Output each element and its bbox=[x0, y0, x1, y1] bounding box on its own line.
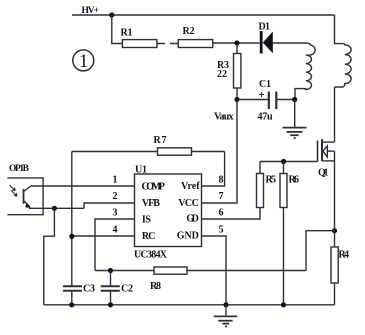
resistor R1 bbox=[122, 40, 156, 48]
wire pin 5 to ground bbox=[202, 236, 227, 305]
node C2 top junction bbox=[108, 268, 113, 273]
wire Vaux node to C1 bbox=[237, 99, 269, 101]
svg-text:Vref: Vref bbox=[181, 181, 200, 192]
svg-text:U1: U1 bbox=[135, 165, 147, 176]
resistor R3 bbox=[234, 54, 241, 89]
ground (aux winding) bbox=[283, 100, 307, 139]
wire R3 top stub bbox=[236, 43, 238, 54]
wire R3 bottom stub bbox=[236, 88, 238, 100]
transistor Q1 (MOSFET) bbox=[318, 139, 335, 161]
svg-text:R8: R8 bbox=[150, 281, 161, 292]
wire left vertical R7/pin4/C3 bbox=[71, 152, 73, 287]
wire current sense line R8 bbox=[95, 270, 154, 272]
svg-text:C3: C3 bbox=[83, 284, 95, 295]
svg-text:6: 6 bbox=[219, 208, 224, 219]
node rail R6 bbox=[281, 302, 286, 307]
svg-text:R1: R1 bbox=[121, 28, 133, 39]
svg-text:47u: 47u bbox=[258, 112, 273, 123]
schematic number circle 1 bbox=[73, 50, 94, 71]
inductor primary winding bbox=[295, 43, 315, 100]
svg-text:GD: GD bbox=[186, 214, 199, 225]
resistor R4 bbox=[331, 247, 338, 283]
wire R6 bottom to ground rail bbox=[283, 208, 285, 305]
svg-text:OP1B: OP1B bbox=[9, 164, 30, 174]
resistor R5 bbox=[257, 174, 264, 208]
wire source node left and down to R8 bbox=[306, 231, 335, 271]
svg-text:2: 2 bbox=[113, 191, 118, 202]
wire R4 bottom stub bbox=[334, 283, 336, 305]
wire gate line from R5/R6 to Q1 bbox=[260, 161, 318, 163]
node pin4 junction bbox=[69, 234, 74, 239]
svg-text:UC384X: UC384X bbox=[134, 250, 168, 261]
wire pin 2 from emitter jog bbox=[84, 203, 134, 208]
wire R8 right lead bbox=[187, 270, 306, 272]
capacitor C3 bbox=[63, 286, 82, 305]
svg-text:5: 5 bbox=[219, 224, 224, 235]
wire emitter node down to ground rail bbox=[44, 208, 55, 304]
svg-text:R5: R5 bbox=[266, 175, 277, 186]
wire pin 4 to left vertical bbox=[72, 235, 135, 237]
svg-text:7: 7 bbox=[219, 191, 224, 202]
svg-text:3: 3 bbox=[113, 208, 118, 219]
wire R6 top stub bbox=[283, 162, 285, 174]
node R6 top bbox=[281, 159, 286, 164]
wire C1 to coil-bottom node bbox=[278, 99, 295, 101]
svg-text:1: 1 bbox=[79, 52, 88, 72]
node coil/C1/ground junction bbox=[292, 97, 297, 102]
svg-text:Vaux: Vaux bbox=[214, 112, 234, 123]
wire Q1 source down bbox=[334, 151, 336, 231]
svg-text:IS: IS bbox=[142, 214, 151, 225]
wire R7 right lead bbox=[192, 151, 225, 153]
svg-text:VFB: VFB bbox=[142, 198, 160, 209]
capacitor C2 bbox=[101, 271, 120, 305]
resistor R2 bbox=[178, 40, 213, 48]
svg-text:C1: C1 bbox=[259, 79, 271, 90]
wire dashed between R1 and R2 bbox=[157, 43, 178, 45]
wire pin 3 to current sense bbox=[95, 219, 135, 271]
svg-text:R4: R4 bbox=[339, 250, 350, 261]
wire R7 lead left bbox=[72, 151, 158, 153]
resistor R8 bbox=[154, 267, 187, 274]
svg-text:R7: R7 bbox=[154, 135, 167, 146]
resistor R7 bbox=[158, 148, 192, 155]
wire R4 top stub bbox=[334, 231, 336, 247]
wire from HV+ node down to R1 bbox=[112, 15, 123, 44]
wire secondary bottom to Q1 drain bbox=[334, 87, 336, 142]
inductor secondary winding bbox=[335, 15, 352, 87]
svg-text:R2: R2 bbox=[183, 26, 195, 37]
svg-text:HV+: HV+ bbox=[82, 6, 100, 16]
svg-text:R6: R6 bbox=[289, 175, 300, 186]
diode D1 bbox=[260, 31, 273, 54]
wire emitter to pin2 jog bbox=[29, 207, 84, 209]
svg-text:D1: D1 bbox=[259, 22, 271, 33]
svg-text:4: 4 bbox=[113, 224, 118, 235]
node R3/C1/Vaux junction bbox=[234, 97, 239, 102]
svg-text:COMP: COMP bbox=[142, 182, 165, 193]
node HV+ junction bbox=[109, 12, 114, 17]
node rail C2 bbox=[108, 302, 113, 307]
resistor R6 bbox=[280, 174, 287, 208]
svg-text:Q1: Q1 bbox=[318, 168, 329, 179]
wire R5 top stub bbox=[259, 162, 261, 174]
node Q1 source / R4 junction bbox=[332, 228, 337, 233]
wire pin 8 to R7 bbox=[202, 152, 225, 187]
wire Vaux vertical to pin 7 bbox=[202, 100, 238, 204]
svg-text:22: 22 bbox=[217, 69, 227, 80]
wire R5 bottom to pin 6 bbox=[202, 208, 261, 220]
node R2/R3 junction bbox=[234, 40, 239, 45]
svg-text:VCC: VCC bbox=[178, 198, 199, 209]
svg-text:C2: C2 bbox=[121, 284, 133, 295]
node rail pin5 bbox=[223, 302, 228, 307]
wire pin 1 from OP1B collector bbox=[31, 185, 135, 187]
optocoupler OP1B bbox=[7, 178, 43, 215]
wire bottom ground rail bbox=[44, 304, 335, 306]
wire HV+ top rail bbox=[72, 14, 335, 16]
node emitter junction bbox=[52, 206, 57, 211]
svg-text:1: 1 bbox=[113, 175, 118, 186]
capacitor C1 bbox=[259, 92, 276, 110]
op-amp U1 box (UC384X chip) bbox=[135, 174, 202, 247]
ground (main) bbox=[214, 305, 237, 327]
wire R2 to D1 bbox=[213, 42, 260, 44]
svg-text:GND: GND bbox=[177, 231, 199, 242]
node rail C3 bbox=[69, 302, 74, 307]
svg-text:RC: RC bbox=[142, 231, 156, 242]
wire D1 to primary coil bbox=[273, 42, 306, 44]
svg-text:8: 8 bbox=[219, 175, 224, 186]
